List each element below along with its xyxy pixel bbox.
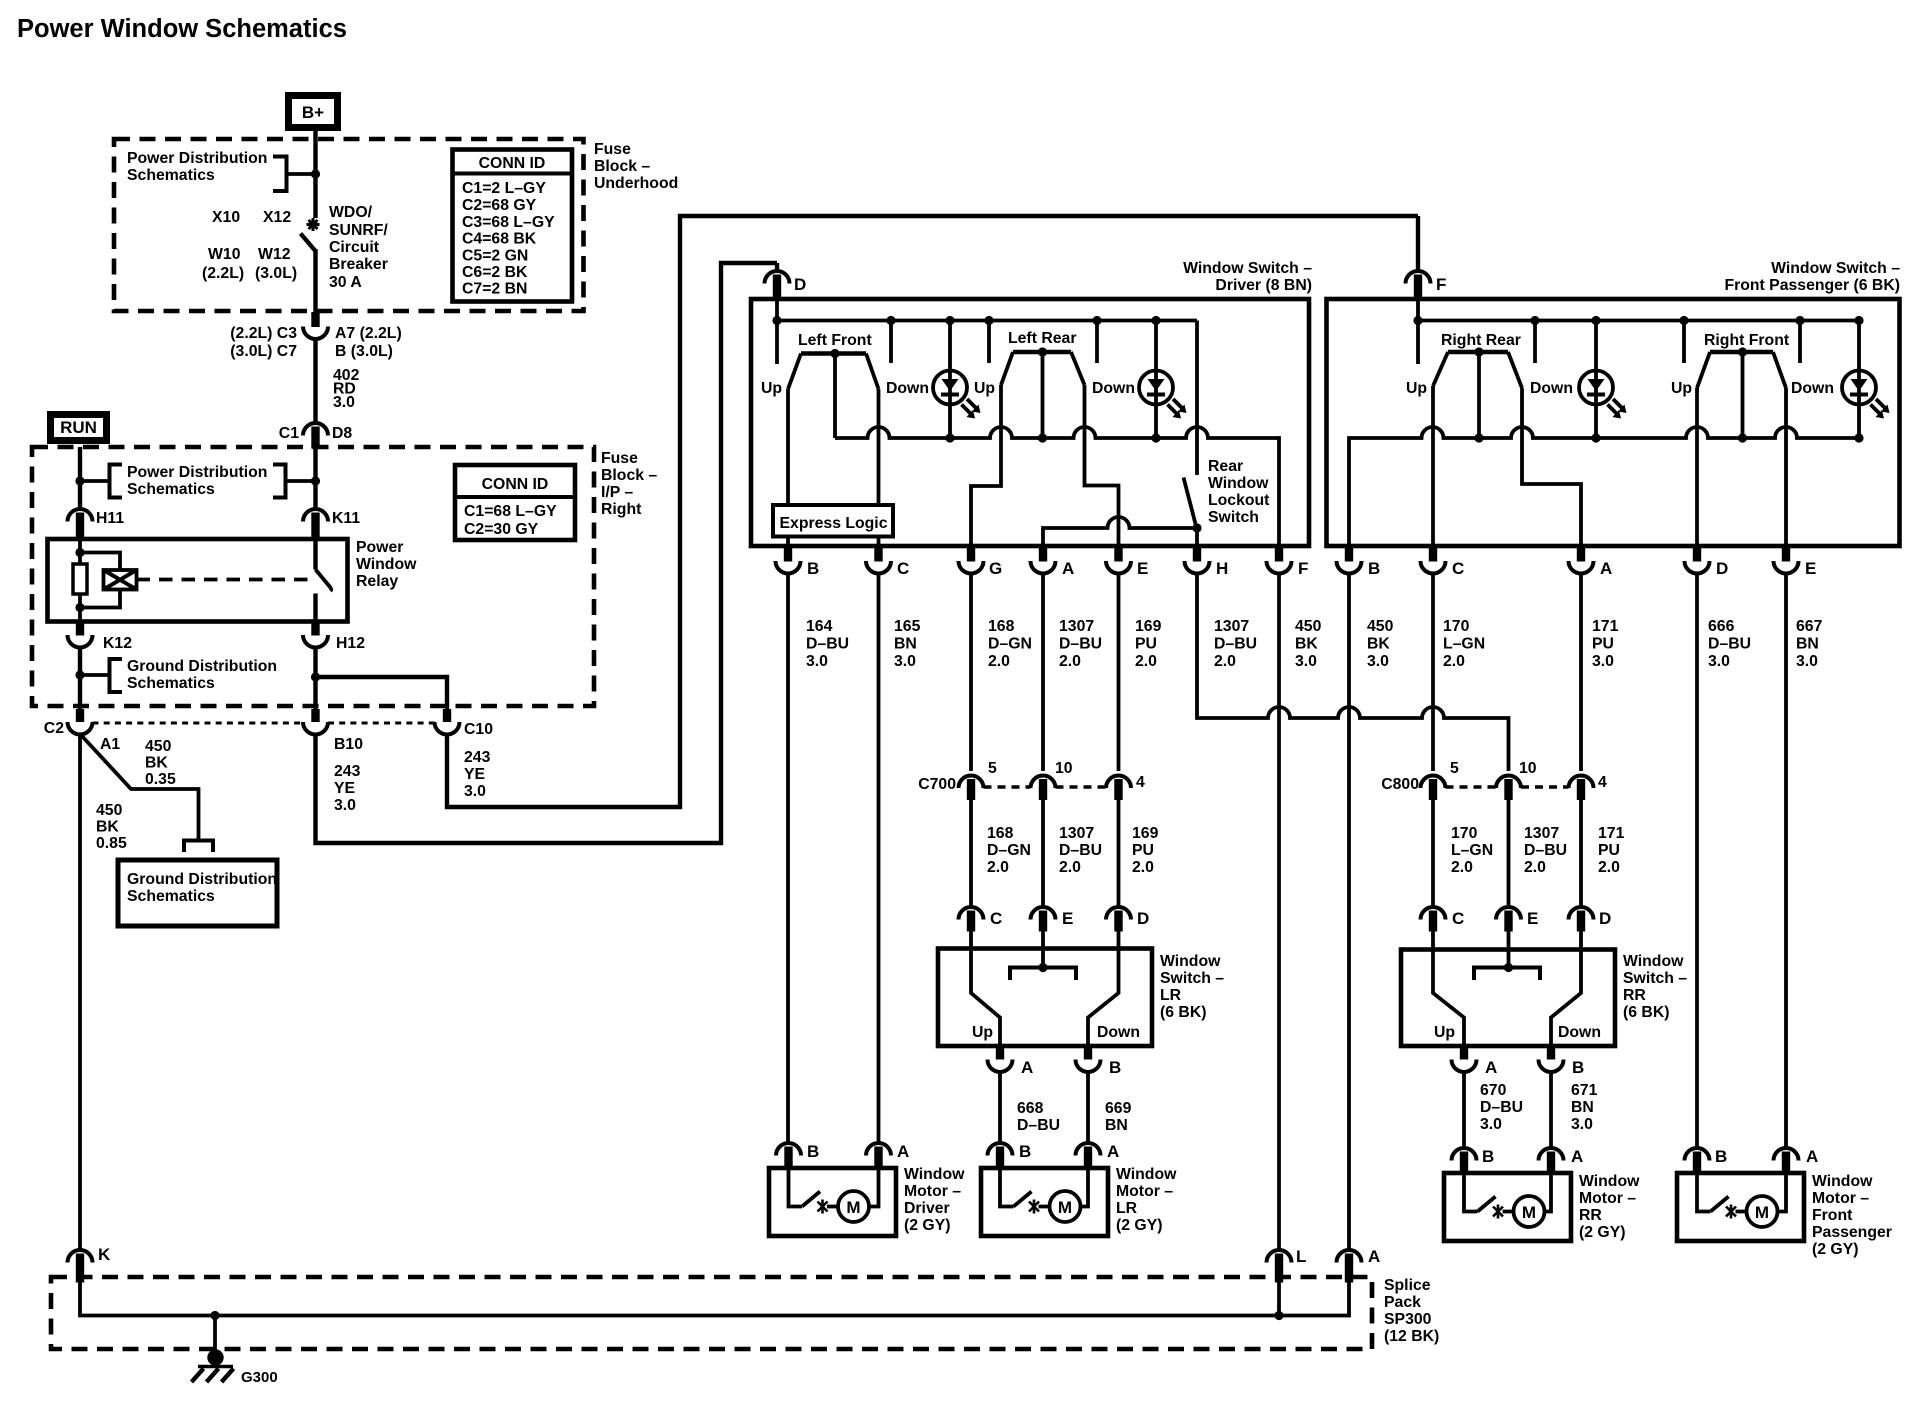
svg-text:Switch –: Switch – [1160, 970, 1224, 987]
svg-text:450: 450 [96, 802, 123, 819]
wire G to C700 [969, 574, 973, 772]
connector A (motor FP) [1774, 1148, 1799, 1173]
svg-text:Block –: Block – [594, 158, 650, 175]
svg-text:SUNRF/: SUNRF/ [329, 222, 388, 239]
svg-text:671: 671 [1571, 1082, 1598, 1099]
svg-text:Window Switch –: Window Switch – [1183, 260, 1312, 277]
wire B to window motor driver [786, 574, 790, 1144]
passenger lower bus with hops [1349, 427, 1859, 546]
svg-text:450: 450 [1367, 618, 1394, 635]
LED lamp 2 [1139, 371, 1187, 419]
wire F to splice L [1277, 574, 1281, 1251]
svg-text:2.0: 2.0 [1132, 859, 1154, 876]
connector E (driver) [1106, 546, 1131, 573]
svg-text:A: A [1600, 559, 1612, 578]
wire left rear up to G [971, 385, 1001, 546]
svg-text:450: 450 [145, 738, 172, 755]
svg-text:L–GN: L–GN [1443, 636, 1485, 653]
svg-text:Express Logic: Express Logic [780, 515, 888, 532]
driver lower bus with hops [835, 427, 1279, 546]
svg-text:3.0: 3.0 [333, 394, 355, 411]
wire passenger A to C800 [1579, 574, 1583, 772]
svg-text:C1: C1 [279, 425, 299, 442]
wire right rear pivot [1477, 352, 1481, 438]
svg-text:D8: D8 [332, 425, 352, 442]
svg-text:170: 170 [1443, 618, 1470, 635]
svg-text:165: 165 [894, 618, 921, 635]
svg-text:E: E [1527, 909, 1538, 928]
svg-text:5: 5 [1450, 760, 1459, 777]
svg-text:D–BU: D–BU [1059, 842, 1102, 859]
svg-text:K12: K12 [103, 635, 132, 652]
connector A (motor LR) [1076, 1143, 1101, 1168]
connector E (RR switch) [1496, 907, 1521, 932]
svg-text:Up: Up [1406, 380, 1427, 397]
svg-text:(6 BK): (6 BK) [1160, 1004, 1207, 1021]
connector C (driver) [866, 546, 891, 573]
connector B10 [303, 709, 328, 735]
wire right rear down to A [1522, 388, 1581, 546]
RUN power symbol [51, 415, 107, 441]
svg-text:Rear: Rear [1208, 458, 1243, 475]
CONN ID table (underhood) [453, 150, 573, 302]
svg-text:Up: Up [761, 380, 782, 397]
splice pack dashed box [51, 1277, 1372, 1349]
connector F (passenger box feed) [1406, 216, 1431, 298]
svg-text:F: F [1298, 559, 1308, 578]
wires C700 to LR switch connectors [969, 800, 973, 907]
connector K11 [303, 509, 328, 538]
connector B (passenger) [1337, 546, 1362, 573]
RR switch up blade [1433, 931, 1464, 1046]
passenger switch feed bus [1418, 319, 1859, 323]
svg-text:E: E [1805, 559, 1816, 578]
svg-text:BN: BN [1571, 1099, 1594, 1116]
svg-text:5: 5 [988, 760, 997, 777]
wire H to C800 with hops [1197, 574, 1509, 772]
svg-text:Up: Up [974, 380, 995, 397]
svg-text:B: B [1109, 1058, 1121, 1077]
svg-text:A7 (2.2L): A7 (2.2L) [335, 325, 402, 342]
svg-text:C7=2 BN: C7=2 BN [462, 281, 527, 298]
svg-text:C800: C800 [1381, 776, 1419, 793]
svg-text:Up: Up [972, 1024, 993, 1041]
connector K (splice pack) [68, 1250, 93, 1282]
wire lockout to A with hop [1043, 517, 1197, 546]
express logic module [773, 505, 893, 537]
svg-text:Window: Window [1579, 1173, 1640, 1190]
svg-text:YE: YE [464, 766, 485, 783]
wire right front down contact [1798, 321, 1802, 364]
svg-text:Schematics: Schematics [127, 481, 215, 498]
svg-text:L: L [1296, 1247, 1306, 1266]
wire D into box [775, 297, 779, 364]
C800 dashed connector line [1446, 785, 1497, 788]
svg-text:K: K [98, 1245, 111, 1264]
svg-text:Switch: Switch [1208, 509, 1259, 526]
svg-text:Up: Up [1434, 1024, 1455, 1041]
connector D (RR switch) [1569, 907, 1594, 932]
wire left rear up contact [987, 321, 991, 364]
connector A (LR switch out) [988, 1046, 1013, 1072]
wire right front down to E [1784, 388, 1788, 546]
relay actuation dashed link [137, 578, 314, 582]
svg-text:A: A [1021, 1058, 1033, 1077]
svg-text:C: C [990, 909, 1002, 928]
svg-text:SP300: SP300 [1384, 1311, 1432, 1328]
fuse block I/P right dashed box [32, 447, 594, 706]
connector B (motor RR) [1452, 1148, 1477, 1173]
LR switch up blade [971, 931, 1000, 1046]
svg-text:W10: W10 [208, 246, 241, 263]
svg-text:D–BU: D–BU [1059, 636, 1102, 653]
svg-text:BK: BK [145, 755, 168, 772]
svg-text:2.0: 2.0 [987, 859, 1009, 876]
svg-text:Window: Window [1208, 475, 1269, 492]
svg-text:Breaker: Breaker [329, 256, 388, 273]
svg-text:BK: BK [1367, 636, 1390, 653]
svg-text:Power: Power [356, 539, 403, 556]
svg-text:2.0: 2.0 [1214, 653, 1236, 670]
svg-text:170: 170 [1451, 825, 1478, 842]
connector E (LR switch) [1031, 907, 1056, 932]
svg-text:Window: Window [1116, 1166, 1177, 1183]
svg-text:B: B [1572, 1058, 1584, 1077]
wire branch to C10 [316, 677, 448, 709]
ground distribution schematics box [118, 860, 277, 926]
svg-text:2.0: 2.0 [988, 653, 1010, 670]
svg-text:10: 10 [1519, 760, 1537, 777]
connector E (passenger) [1774, 546, 1799, 573]
svg-text:2.0: 2.0 [1135, 653, 1157, 670]
svg-text:Motor –: Motor – [904, 1183, 961, 1200]
connector C3/C7 A7/B [303, 312, 328, 339]
svg-text:YE: YE [334, 780, 355, 797]
wire branch to ground distribution [81, 735, 199, 839]
power window relay box [48, 539, 348, 622]
wire passenger B to splice A [1347, 574, 1351, 1251]
window switch RR box [1401, 950, 1615, 1047]
svg-text:Left Rear: Left Rear [1008, 330, 1076, 347]
RR switch down blade [1551, 931, 1581, 1046]
svg-text:B (3.0L): B (3.0L) [335, 343, 393, 360]
svg-text:B: B [807, 559, 819, 578]
svg-text:4: 4 [1598, 774, 1607, 791]
svg-text:Motor –: Motor – [1116, 1183, 1173, 1200]
svg-text:M: M [1058, 1198, 1072, 1217]
svg-text:Fuse: Fuse [594, 141, 631, 158]
svg-text:B: B [1019, 1142, 1031, 1161]
svg-text:668: 668 [1017, 1100, 1044, 1117]
window motor RR box [1444, 1173, 1571, 1241]
svg-text:667: 667 [1796, 618, 1823, 635]
svg-text:Window: Window [1812, 1173, 1873, 1190]
connector L (splice pack) [1267, 1250, 1292, 1283]
svg-text:Down: Down [1097, 1024, 1140, 1041]
svg-text:Motor –: Motor – [1812, 1190, 1869, 1207]
svg-text:A: A [1107, 1142, 1119, 1161]
connector D (LR switch) [1106, 907, 1131, 932]
wire right rear up to C [1431, 386, 1435, 546]
svg-text:Relay: Relay [356, 573, 398, 590]
svg-text:C5=2 GN: C5=2 GN [462, 248, 528, 265]
svg-text:3.0: 3.0 [1480, 1116, 1502, 1133]
svg-text:B: B [1482, 1147, 1494, 1166]
svg-text:A: A [1806, 1147, 1818, 1166]
svg-text:1307: 1307 [1524, 825, 1559, 842]
svg-text:D–BU: D–BU [1708, 636, 1751, 653]
connector C (RR switch) [1421, 907, 1446, 932]
svg-text:(2 GY): (2 GY) [1812, 1241, 1859, 1258]
svg-text:M: M [1522, 1203, 1536, 1222]
C700 dashed connector line [984, 785, 1031, 788]
svg-text:1307: 1307 [1059, 825, 1094, 842]
svg-text:LR: LR [1116, 1200, 1138, 1217]
B+ power symbol [289, 96, 338, 128]
connector C1/D8 [303, 423, 328, 449]
wire B+ to circuit breaker [313, 131, 317, 218]
svg-text:M: M [846, 1198, 860, 1217]
svg-text:C: C [1452, 909, 1464, 928]
junction node [311, 169, 320, 178]
svg-text:PU: PU [1135, 636, 1157, 653]
svg-text:H12: H12 [336, 635, 365, 652]
svg-text:243: 243 [334, 763, 361, 780]
wire left front pivot [833, 354, 837, 439]
fuse block underhood dashed box [114, 139, 584, 311]
svg-text:D–GN: D–GN [987, 842, 1031, 859]
svg-text:Pack: Pack [1384, 1294, 1421, 1311]
svg-text:0.35: 0.35 [145, 771, 176, 788]
relay switch [316, 539, 332, 622]
svg-text:D: D [794, 275, 806, 294]
wire left front down to C [877, 389, 881, 546]
svg-text:B10: B10 [334, 736, 363, 753]
svg-text:(2 GY): (2 GY) [1116, 1217, 1163, 1234]
svg-text:0.85: 0.85 [96, 835, 127, 852]
svg-text:Down: Down [1791, 380, 1834, 397]
connector C (LR switch) [959, 907, 984, 932]
wire C2 to splice K [78, 735, 82, 1251]
C700 pin 4 [1106, 775, 1131, 800]
svg-text:G: G [989, 559, 1002, 578]
svg-text:PU: PU [1132, 842, 1154, 859]
svg-text:3.0: 3.0 [1708, 653, 1730, 670]
window motor front passenger box [1677, 1173, 1804, 1241]
motor RR internals [1464, 1173, 1551, 1227]
rear window lockout switch [1184, 321, 1202, 547]
svg-text:2.0: 2.0 [1451, 859, 1473, 876]
svg-text:A1: A1 [100, 736, 120, 753]
svg-text:D–BU: D–BU [806, 636, 849, 653]
svg-text:BK: BK [1295, 636, 1318, 653]
wire H12 to B10 [313, 648, 317, 710]
svg-text:Window: Window [356, 556, 417, 573]
LR switch down blade [1088, 931, 1119, 1046]
svg-text:Power Distribution: Power Distribution [127, 150, 267, 167]
connector H (driver) [1185, 546, 1210, 573]
svg-text:Up: Up [1671, 380, 1692, 397]
svg-text:Circuit: Circuit [329, 239, 380, 256]
svg-text:B+: B+ [302, 103, 324, 122]
connector B (RR switch out) [1539, 1046, 1564, 1072]
svg-text:3.0: 3.0 [1592, 653, 1614, 670]
splice pack ground bus [80, 1282, 1349, 1316]
ground distribution schematics note (box 2) [78, 648, 82, 710]
svg-text:BN: BN [1796, 636, 1819, 653]
svg-text:2.0: 2.0 [1443, 653, 1465, 670]
svg-text:666: 666 [1708, 618, 1735, 635]
relay coil circuit [75, 539, 120, 622]
svg-text:3.0: 3.0 [1295, 653, 1317, 670]
svg-text:C6=2 BK: C6=2 BK [462, 264, 528, 281]
svg-text:Block –: Block – [601, 467, 657, 484]
connector A (passenger) [1569, 546, 1594, 573]
C800 pin 5 [1421, 775, 1446, 800]
ground G300 [192, 1316, 234, 1383]
svg-text:Front: Front [1812, 1207, 1853, 1224]
svg-text:(12 BK): (12 BK) [1384, 1328, 1439, 1345]
svg-text:Right: Right [601, 501, 642, 518]
svg-text:C: C [897, 559, 909, 578]
svg-text:E: E [1137, 559, 1148, 578]
svg-text:3.0: 3.0 [1367, 653, 1389, 670]
svg-text:A: A [1368, 1247, 1380, 1266]
svg-text:Driver: Driver [904, 1200, 950, 1217]
connector A (motor RR) [1539, 1148, 1564, 1173]
svg-text:Power Distribution: Power Distribution [127, 464, 267, 481]
svg-text:Down: Down [1092, 380, 1135, 397]
svg-text:RR: RR [1623, 987, 1646, 1004]
svg-text:G300: G300 [241, 1369, 278, 1386]
connector C10 [435, 709, 460, 735]
connector B (motor driver) [776, 1143, 801, 1168]
C700 pin 10 [1031, 775, 1056, 800]
svg-text:D–GN: D–GN [988, 636, 1032, 653]
svg-text:Down: Down [1558, 1024, 1601, 1041]
window motor driver box [769, 1168, 896, 1236]
svg-text:RR: RR [1579, 1207, 1602, 1224]
svg-text:C2=30 GY: C2=30 GY [464, 521, 539, 538]
svg-text:X10: X10 [212, 209, 240, 226]
bracket to wire [273, 157, 287, 192]
svg-text:Window: Window [904, 1166, 965, 1183]
connector F (driver) [1267, 546, 1292, 573]
connector C2/A1 [68, 709, 93, 734]
svg-text:BN: BN [1105, 1117, 1128, 1134]
relay coil winding (X box) [104, 570, 137, 590]
svg-text:CONN ID: CONN ID [482, 476, 549, 493]
svg-text:Front Passenger (6 BK): Front Passenger (6 BK) [1724, 277, 1900, 294]
svg-text:X12: X12 [263, 209, 291, 226]
connector B (motor LR) [988, 1143, 1013, 1168]
wire C10 to F connector [447, 216, 1418, 807]
svg-text:669: 669 [1105, 1100, 1132, 1117]
svg-text:Schematics: Schematics [127, 675, 215, 692]
svg-text:B: B [807, 1142, 819, 1161]
driver switch feed bus [777, 319, 1197, 323]
wire left feed [78, 447, 82, 510]
svg-text:2.0: 2.0 [1059, 653, 1081, 670]
connector D [765, 263, 790, 298]
motor LR internals [1000, 1168, 1088, 1222]
connector A (motor driver) [866, 1143, 891, 1168]
wire K11 feed [313, 448, 317, 510]
svg-text:(2.2L): (2.2L) [202, 265, 244, 282]
connector B (LR switch out) [1076, 1046, 1101, 1072]
svg-text:Lockout: Lockout [1208, 492, 1270, 509]
wire left rear down to E [1085, 385, 1119, 546]
svg-text:Window: Window [1623, 953, 1684, 970]
LED lamp 1 [933, 371, 981, 419]
LED lamp 4 wire [1857, 321, 1861, 439]
RR switch common [1474, 931, 1540, 980]
connector B (driver) [776, 546, 801, 573]
driver switch box [751, 299, 1309, 546]
wire left rear down contact [1095, 321, 1099, 364]
svg-text:2.0: 2.0 [1524, 859, 1546, 876]
svg-text:(2 GY): (2 GY) [1579, 1224, 1626, 1241]
connector A (driver) [1031, 546, 1056, 573]
C800 pin 4 [1569, 775, 1594, 800]
bracket left [110, 465, 123, 498]
svg-text:Left Front: Left Front [798, 332, 872, 349]
connector A (splice pack) [1337, 1250, 1362, 1283]
svg-text:Window: Window [1160, 953, 1221, 970]
svg-text:Driver (8 BN): Driver (8 BN) [1215, 277, 1312, 294]
svg-text:(3.0L) C7: (3.0L) C7 [230, 343, 297, 360]
svg-text:(2 GY): (2 GY) [904, 1217, 951, 1234]
svg-text:171: 171 [1592, 618, 1619, 635]
svg-text:C700: C700 [918, 776, 956, 793]
window switch LR box [938, 949, 1152, 1047]
svg-text:L–GN: L–GN [1451, 842, 1493, 859]
wire E to C700 [1117, 574, 1121, 772]
svg-text:169: 169 [1135, 618, 1162, 635]
svg-text:Right Rear: Right Rear [1441, 332, 1521, 349]
svg-text:D–BU: D–BU [1017, 1117, 1060, 1134]
connector A (RR switch out) [1452, 1046, 1477, 1072]
svg-text:D–BU: D–BU [1214, 636, 1257, 653]
wire 402 RD [313, 338, 317, 423]
svg-text:Schematics: Schematics [127, 167, 215, 184]
svg-text:B: B [1715, 1147, 1727, 1166]
svg-text:CONN ID: CONN ID [479, 155, 546, 172]
C800 pin 10 [1496, 775, 1521, 800]
wire passenger E to motor FP [1784, 574, 1788, 1149]
svg-text:D: D [1137, 909, 1149, 928]
svg-text:3.0: 3.0 [894, 653, 916, 670]
svg-text:Right Front: Right Front [1704, 332, 1790, 349]
svg-text:A: A [897, 1142, 909, 1161]
svg-text:BN: BN [894, 636, 917, 653]
CONN ID table (I/P) [455, 465, 575, 540]
svg-text:Power Window Schematics: Power Window Schematics [17, 15, 347, 43]
svg-text:670: 670 [1480, 1082, 1507, 1099]
connector H12 [303, 622, 328, 648]
svg-text:(3.0L): (3.0L) [255, 265, 297, 282]
svg-text:PU: PU [1598, 842, 1620, 859]
svg-text:E: E [1062, 909, 1073, 928]
LED lamp 1 wire [948, 321, 952, 439]
svg-text:Fuse: Fuse [601, 450, 638, 467]
svg-text:Down: Down [886, 380, 929, 397]
svg-text:3.0: 3.0 [1796, 653, 1818, 670]
LR switch common [1010, 931, 1076, 980]
wire B10 to D connector [316, 263, 778, 843]
svg-text:1307: 1307 [1214, 618, 1249, 635]
window motor LR box [981, 1168, 1108, 1236]
